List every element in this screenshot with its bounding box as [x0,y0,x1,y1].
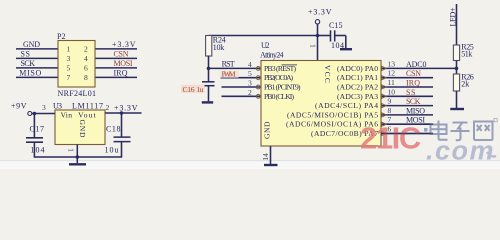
svg-text:SCK: SCK [21,59,36,68]
wire CSN (pin12) [381,77,433,79]
svg-text:2k: 2k [461,80,469,89]
svg-text:(ADC5/MISO/OC1B) PA5: (ADC5/MISO/OC1B) PA5 [287,110,378,119]
svg-text:3: 3 [67,54,71,63]
wire U2 pin3 stub [222,86,262,88]
svg-text:CSN: CSN [114,50,129,59]
svg-text:MISO: MISO [19,69,41,78]
wire pin6 stub over watermark [381,133,433,135]
capacitor C18 [105,113,131,157]
svg-text:PWM: PWM [222,70,236,79]
svg-text:1u: 1u [197,85,204,94]
junction rail/GND [76,155,80,159]
svg-text:3: 3 [248,79,252,88]
svg-text:IRQ: IRQ [406,79,420,88]
wire +3.3V rail to R24 [209,35,318,37]
power port +9V circle [28,112,32,116]
R26 bottom lead [456,91,458,108]
svg-text:+3.3V: +3.3V [308,8,332,17]
junction RST node [207,67,211,71]
svg-text:GND: GND [23,40,40,49]
svg-text:10k: 10k [213,43,225,52]
connector P2 body [58,41,95,88]
svg-text:(ADC2) PA2: (ADC2) PA2 [337,83,378,92]
svg-text:U2: U2 [261,41,270,50]
svg-text:PB0 (CLKI): PB0 (CLKI) [264,92,294,101]
hand-drawn CJK: 子 [451,123,470,141]
svg-text:10u: 10u [105,146,119,155]
svg-text:51k: 51k [461,50,472,59]
ground symbol under C16 [202,101,213,103]
wire U2 pin2 stub [222,95,262,97]
svg-text:LED+: LED+ [448,7,457,26]
svg-text:C17: C17 [30,124,45,133]
resistor R25 [453,43,473,61]
svg-text:PB2(OC0A): PB2(OC0A) [264,73,293,82]
U2 right pin markers [382,66,387,135]
wire +3.3V (P2 pin2) [95,48,137,50]
svg-text:5: 5 [67,63,71,72]
capacitor C16 [181,68,215,101]
U2 left pin markers [256,67,260,71]
svg-text:9: 9 [388,97,392,106]
U3 GND pin lead [76,145,78,158]
wire MOSI (pin7) [381,123,433,125]
wire +9V to Vin [32,113,55,115]
svg-text:11: 11 [388,78,396,87]
wire RST to U2 pin4 [209,67,262,69]
svg-text:MOSI: MOSI [114,59,133,68]
svg-text:VCC: VCC [323,65,332,83]
resistor R24 [206,36,226,57]
MCU U2 body [261,61,381,147]
svg-text:2: 2 [106,103,110,112]
wire MOSI (P2 pin6) [95,67,137,69]
ground symbol for C15 [345,36,347,49]
svg-text:2: 2 [84,44,88,53]
svg-text:C15: C15 [329,21,343,30]
svg-text:1: 1 [66,148,75,152]
svg-text:GND: GND [262,121,271,139]
svg-text:104: 104 [31,146,45,155]
svg-text:(ADC0) PA0: (ADC0) PA0 [337,64,378,73]
svg-text:1: 1 [309,44,318,48]
svg-text:Vin: Vin [61,111,73,120]
wire IRQ (P2 pin8) [95,76,137,78]
svg-text:IRQ: IRQ [114,69,128,78]
wire VCC vertical [317,24,319,61]
capacitor C17 [26,114,45,158]
svg-text:+3.3V: +3.3V [112,40,136,49]
svg-text:Attiny24: Attiny24 [260,51,284,60]
svg-text:+9V: +9V [11,101,27,110]
svg-text:12: 12 [388,69,396,78]
node PWM label (highlighted) [221,71,239,78]
ground symbol under R26 [450,108,464,110]
svg-text:SCK: SCK [406,97,421,106]
R25 bottom lead [456,61,458,75]
regulator U3 body [55,110,105,145]
svg-text:SS: SS [406,88,416,97]
wire MISO (P2 pin7) [16,76,58,78]
svg-text:21IC: 21IC [360,121,421,156]
U2 GND pin lead (pin 14) [270,146,272,164]
svg-text:1: 1 [67,44,71,53]
svg-text:U3: U3 [53,101,62,110]
svg-text:P2: P2 [57,32,65,41]
wire PWM to U2 pin5 [221,77,262,79]
svg-text:5: 5 [248,69,252,78]
wire GND (P2 pin1) [16,48,58,50]
watermark m tail swash [487,152,496,157]
junction C18 tap [120,111,124,115]
wire Vout to +3.3V [105,112,142,114]
svg-text:8: 8 [388,106,392,115]
svg-text:PB1 (PCINT9): PB1 (PCINT9) [264,83,301,92]
svg-text:ADC0: ADC0 [406,60,427,69]
svg-text:13: 13 [388,59,396,68]
wire ground rail under U3 [34,156,123,158]
svg-text:10: 10 [388,87,396,96]
junction ADC0 divider node [455,67,459,71]
svg-text:2: 2 [248,88,252,97]
svg-text:C16: C16 [183,85,195,94]
wire CSN (P2 pin4) [95,57,137,59]
svg-text:CSN: CSN [406,69,421,78]
CJK trademark tick [494,119,497,122]
R24 bottom lead [208,56,210,68]
svg-text:4: 4 [248,60,252,69]
hand-drawn CJK: 电 [431,121,448,140]
svg-text:Vout: Vout [78,111,96,120]
svg-text:GND: GND [78,120,87,139]
svg-text:MISO: MISO [406,106,425,115]
svg-text:NRF24L01: NRF24L01 [58,89,97,98]
wire MOSI tail over watermark [424,123,433,125]
wire SCK (P2 pin5) [16,67,58,69]
ground symbol under U3 [76,157,78,163]
svg-text:14: 14 [261,153,270,161]
svg-text:7: 7 [67,73,71,82]
svg-text:+3.3V: +3.3V [114,103,138,112]
svg-text:6: 6 [84,63,88,72]
hand-drawn CJK: 网 [474,122,493,141]
resistor R26 [453,73,473,91]
svg-text:(ADC3) PA3: (ADC3) PA3 [337,92,378,101]
svg-text:RST: RST [222,60,235,69]
svg-text:(ADC1) PA1: (ADC1) PA1 [337,73,378,82]
junction C17 tap [33,112,37,116]
svg-text:3: 3 [42,103,46,112]
wire SS (P2 pin3) [16,57,58,59]
wire IRQ (pin11) [381,86,433,88]
svg-text:(ADC4/SCL) PA4: (ADC4/SCL) PA4 [315,101,378,110]
svg-text:LM1117: LM1117 [72,101,103,110]
junction C15 tap [316,34,320,38]
capacitor C15 [318,21,346,50]
wire SS (pin10) [381,95,433,97]
wire SCK (pin9) [381,105,433,107]
wire LED+ vertical [456,4,458,45]
svg-text:C18: C18 [106,124,121,133]
svg-text:SS: SS [21,50,31,59]
wire pin6 stub [381,133,433,135]
wire MISO (pin8) [381,114,433,116]
wire ADC0 (pin13) [381,67,457,69]
svg-text:8: 8 [84,73,88,82]
ground symbol under U2 [264,164,278,166]
svg-text:4: 4 [84,54,88,63]
power port +3.3V circle [315,20,319,24]
